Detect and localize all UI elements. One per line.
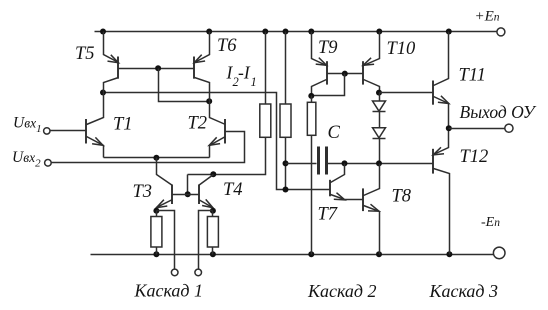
- wire: T7/T8 collectors to T12 base: [345, 163, 434, 165]
- svg-text:T10: T10: [387, 39, 417, 59]
- terminal offset null 1: [171, 269, 178, 276]
- svg-text:Uвх2: Uвх2: [12, 149, 41, 170]
- svg-text:T9: T9: [318, 38, 338, 58]
- terminal offset null 2: [195, 269, 202, 276]
- wire: +Eп supply rail: [95, 31, 497, 33]
- svg-text:T3: T3: [133, 182, 153, 202]
- node T7 collector junction: [342, 160, 348, 166]
- diode VD2: [373, 112, 386, 164]
- svg-text:+Eп: +Eп: [475, 8, 500, 24]
- wire: T5-T6 common base: [119, 68, 195, 70]
- node junction on +Eп rail (T11 collector): [446, 29, 452, 35]
- wire: T9 base-collector tie: [312, 74, 345, 96]
- resistor R3: [151, 211, 162, 255]
- terminal Выход ОУ: [505, 124, 513, 132]
- svg-text:Uвх1: Uвх1: [13, 114, 42, 135]
- svg-text:T6: T6: [217, 36, 237, 56]
- wire: T1/T2 emitter line: [104, 157, 210, 159]
- svg-text:T5: T5: [75, 44, 95, 64]
- node T5/T6 base junction: [155, 65, 161, 71]
- node T5/T1 collector junction: [100, 90, 106, 96]
- transistor T2: [209, 102, 225, 158]
- wire: T10 collector to T11 base: [380, 92, 434, 94]
- svg-text:Выход ОУ: Выход ОУ: [460, 102, 537, 122]
- transistor T5: [104, 32, 119, 93]
- svg-text:-Eп: -Eп: [481, 215, 500, 230]
- node junction on -Eп rail (R5 bottom): [308, 251, 314, 257]
- wire: input 2 to T2 base: [52, 132, 245, 163]
- transistor T7: [330, 164, 364, 200]
- node junction on +Eп rail (T5 emitter): [100, 29, 106, 35]
- terminal -Eп: [493, 247, 505, 259]
- node R2/C junction: [283, 160, 289, 166]
- transistor T1: [86, 93, 104, 158]
- terminal Uвх1: [44, 128, 50, 134]
- svg-text:Каскад 2: Каскад 2: [307, 281, 377, 301]
- transistor T8: [363, 164, 380, 255]
- node T10 collector junction: [376, 90, 382, 96]
- terminal Uвх2: [45, 160, 52, 167]
- transistor T9: [312, 32, 328, 96]
- node junction on -Eп rail (T8 emitter): [376, 251, 382, 257]
- svg-text:T2: T2: [188, 114, 208, 134]
- wire: T3/T4 base tie-down: [187, 175, 189, 195]
- wire: -Eп supply rail: [91, 254, 494, 256]
- svg-text:T4: T4: [223, 180, 243, 200]
- node junction on -Eп rail (R3 bottom): [153, 251, 159, 257]
- node junction on +Eп rail (R2 top): [283, 29, 289, 35]
- node R2/T7 base junction: [283, 187, 289, 193]
- resistor R4: [207, 211, 218, 255]
- resistor R2: [280, 32, 291, 190]
- transistor T10: [363, 32, 380, 93]
- wire: T5/T1 collector node across to T7 base: [104, 93, 331, 190]
- node T3/T4 base junction: [185, 191, 191, 197]
- svg-text:T8: T8: [392, 187, 412, 207]
- svg-text:T7: T7: [318, 205, 338, 225]
- diode VD1: [373, 93, 386, 112]
- node T9/T10 base junction: [342, 71, 348, 77]
- svg-text:C: C: [328, 123, 341, 143]
- wire: offset terminal 2 stub: [199, 211, 213, 270]
- transistor T12: [433, 129, 450, 255]
- node T3 emitter junction: [153, 208, 159, 214]
- node diff-pair emitter junction: [153, 155, 159, 161]
- node junction on +Eп rail (T10 emitter): [376, 29, 382, 35]
- node output junction: [446, 125, 452, 131]
- wire: input 1 to T1 base: [51, 130, 87, 132]
- node junction on +Eп rail (T6 emitter): [206, 29, 212, 35]
- transistor T6: [194, 32, 210, 102]
- wire: offset terminal 1 stub: [157, 211, 175, 270]
- node T6 collector / T2 collector junction: [206, 98, 212, 104]
- node junction on +Eп rail (T9 emitter): [308, 29, 314, 35]
- node junction on -Eп rail (R4 bottom): [210, 251, 216, 257]
- svg-text:Каскад 3: Каскад 3: [429, 281, 499, 301]
- resistor R5: [307, 96, 316, 255]
- node diode chain / T8 collector junction: [376, 160, 382, 166]
- wire: T3/T4 common base: [173, 194, 199, 196]
- node T4 collector junction: [210, 171, 216, 177]
- wire: base junction down to T6 collector node: [159, 69, 210, 102]
- svg-text:Каскад 1: Каскад 1: [134, 281, 204, 301]
- transistor T11: [433, 32, 449, 129]
- terminal +Eп: [497, 28, 505, 36]
- wire: T4 collector line to R1 bottom: [188, 138, 266, 175]
- resistor R1: [260, 32, 271, 138]
- node junction on +Eп rail (R1 top): [262, 29, 268, 35]
- svg-text:T11: T11: [459, 66, 486, 86]
- node junction on -Eп rail (T12 collector): [446, 251, 452, 257]
- svg-text:T1: T1: [113, 115, 133, 135]
- node T9 collector junction: [308, 93, 314, 99]
- svg-text:T12: T12: [460, 147, 489, 167]
- svg-text:I2-I1: I2-I1: [226, 63, 257, 90]
- wire: T9-T10 common base: [327, 73, 364, 75]
- transistor T3: [156, 158, 172, 211]
- transistor T4: [199, 175, 214, 211]
- capacitor C: [286, 147, 345, 175]
- node T4 emitter junction: [210, 208, 216, 214]
- wire: output line: [449, 128, 505, 130]
